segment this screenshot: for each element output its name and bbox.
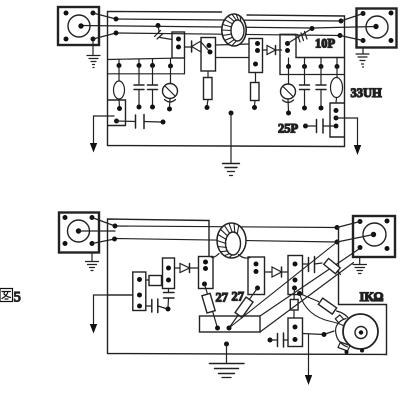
wire: box A lower tail	[184, 58, 186, 74]
transformer T2 (toroid)	[217, 223, 246, 258]
node H	[335, 225, 340, 230]
wire: diagonal to J2 lower pin	[340, 36, 363, 41]
pin dots of connector J1	[64, 11, 96, 42]
svg-text:10P: 10P	[315, 37, 336, 51]
svg-text:27: 27	[216, 291, 229, 305]
node C	[339, 19, 344, 24]
trimmer capacitor 10P (arrow with hatches)	[287, 26, 314, 44]
wire: B to C lower link	[216, 57, 250, 59]
capacitor C5	[316, 67, 326, 111]
resistor R3 27 (tilted, left leg)	[202, 284, 218, 328]
resistor R6 (tilted, to potentiometer)	[300, 294, 351, 321]
wire: curved link to potentiometer	[300, 294, 344, 326]
pins of box I	[254, 262, 261, 291]
ground bus bar	[200, 316, 261, 332]
connector J1 (input BNC socket, top-left)	[58, 7, 99, 45]
inductor L2 33UH	[331, 67, 343, 104]
node K	[297, 291, 302, 296]
svg-text:5: 5	[14, 290, 21, 306]
connector J4 (output socket, bottom circuit)	[353, 216, 395, 257]
wire stub box at lower right	[330, 103, 345, 137]
connector J2 (output BNC socket, top-right)	[357, 9, 397, 48]
capacitor C6 25P	[303, 119, 333, 133]
pins of box H	[202, 260, 208, 287]
trimmer tap S1 on center wire	[155, 23, 173, 39]
pin dots of connector J4	[358, 219, 390, 252]
box I	[248, 257, 265, 295]
box H	[199, 257, 214, 289]
wire: band upper edge to J4 corner	[260, 249, 359, 316]
capacitor C3 (coupling)	[117, 115, 166, 129]
wire: box K to potentiometer	[303, 331, 335, 335]
ground below J1	[87, 41, 100, 68]
crystal component between F and G	[147, 276, 163, 286]
wire: toroid left tail	[211, 254, 219, 258]
center ground of top circuit	[223, 111, 240, 176]
wire: B to C upper link	[216, 44, 250, 45]
diode D2	[263, 46, 282, 55]
ground below J2	[356, 48, 369, 68]
potentiometer RP 1K (body)	[343, 314, 378, 349]
wire: J3 center stub	[79, 230, 116, 232]
winding hatch of T1	[222, 14, 241, 46]
wire: J1 lower pin diagonal	[93, 33, 116, 39]
pins of box D	[285, 41, 290, 53]
box G	[163, 258, 175, 289]
board outline (bottom circuit)	[108, 219, 387, 355]
node G	[112, 237, 117, 242]
wire: diagonal to J4 center pin	[337, 235, 374, 243]
capacitor C10 left of box K	[268, 333, 289, 347]
wire: diagonal to J2 upper pin	[341, 14, 363, 22]
pins of box G	[166, 266, 171, 283]
box A (filter block)	[172, 32, 185, 58]
wire: lower link bus	[115, 239, 337, 243]
resistor R2	[251, 73, 260, 111]
wire: lower rail (left)	[108, 73, 185, 75]
wire: upper link bus	[115, 226, 337, 228]
box J	[288, 256, 303, 295]
pins of box A	[176, 37, 181, 50]
diode D1	[185, 41, 210, 52]
capacitor C7 under box G	[164, 289, 175, 312]
inductor L1	[114, 66, 125, 111]
pins of box K	[293, 325, 298, 343]
capacitor C4	[300, 67, 310, 111]
svg-text:27: 27	[232, 290, 245, 304]
svg-text:Ω: Ω	[374, 290, 384, 304]
center ground of bottom circuit	[210, 342, 245, 378]
figure label 图5	[0, 289, 13, 302]
pin dots of connector J3	[63, 215, 95, 246]
transformer T1 (toroid)	[222, 14, 246, 46]
svg-text:IK: IK	[360, 290, 375, 304]
ground below J3	[86, 253, 99, 271]
wire: pin stubs to shelf (right)	[289, 58, 338, 67]
wire: upper-left inner shelf	[108, 58, 173, 59]
node B	[114, 31, 119, 36]
svg-text:25P: 25P	[278, 122, 299, 136]
nodes in stub box	[334, 108, 339, 129]
node E	[114, 119, 119, 124]
node F	[113, 224, 118, 229]
resistor R5 (tilted)	[324, 258, 340, 273]
diode D4	[265, 267, 289, 277]
wire: left connector J1 center pin to right connector J2 center pin	[81, 26, 376, 29]
capacitor C1	[134, 66, 144, 110]
wire: long diagonal from bar to node I	[229, 242, 337, 328]
trimmer capacitor CT1	[163, 66, 178, 112]
output arrow (right)	[336, 118, 361, 155]
box C (mixer block right)	[249, 39, 263, 73]
node J	[322, 332, 327, 337]
resistor R1	[204, 71, 213, 110]
box B (mixer block left)	[201, 38, 216, 72]
wire: band lower edge	[260, 263, 354, 333]
box F	[133, 272, 146, 311]
bus nodes	[117, 63, 340, 69]
trimmer capacitor CT2	[281, 67, 296, 116]
ground below J4	[353, 257, 367, 274]
potentiometer bracket	[335, 315, 364, 354]
capacitor C9 right of box J	[303, 257, 323, 273]
wire: toroid right tail	[239, 255, 251, 259]
wire: diagonal to J4 upper pin	[337, 222, 360, 228]
svg-text:33UH: 33UH	[351, 86, 383, 100]
resistor R7 (between box J and box K)	[290, 288, 298, 318]
output arrow (bottom-left)	[90, 295, 133, 334]
wire: left edge to box F	[108, 294, 134, 296]
node D	[338, 33, 343, 38]
pins of box B	[207, 43, 213, 55]
nodes on bar	[215, 326, 232, 331]
wire: J3 lower diagonal	[92, 239, 115, 244]
wire: pin stubs to shelf	[119, 58, 171, 66]
box K	[288, 318, 303, 347]
pin dots of connector J2	[361, 11, 394, 44]
capacitor C8 from box F lower pin	[146, 299, 166, 313]
wire: lower bus from node to right connector side	[116, 33, 340, 36]
resistor R4 27 (tilted, right leg)	[229, 288, 258, 328]
node A	[114, 17, 119, 22]
pins of box J	[292, 262, 298, 291]
wire: upper bus from node to right connector side	[116, 19, 341, 21]
capacitor C2	[148, 66, 158, 110]
node I	[335, 240, 340, 245]
connector J3 (input socket, bottom circuit)	[59, 213, 99, 253]
wire: J1 upper pin diagonal	[93, 13, 116, 19]
wire: J3 upper diagonal	[92, 218, 115, 227]
board outline (top circuit)	[108, 12, 345, 147]
inner shield box (bottom-left of board)	[108, 100, 126, 126]
pins of box C	[253, 41, 260, 67]
output arrow (left)	[90, 116, 114, 153]
output arrow (bottom)	[305, 334, 312, 385]
pins of box F	[137, 277, 142, 309]
diode D3	[175, 264, 199, 273]
wire: R5 to band	[338, 271, 341, 275]
winding hatch of T2	[217, 223, 239, 257]
box D (detector block)	[280, 34, 296, 74]
